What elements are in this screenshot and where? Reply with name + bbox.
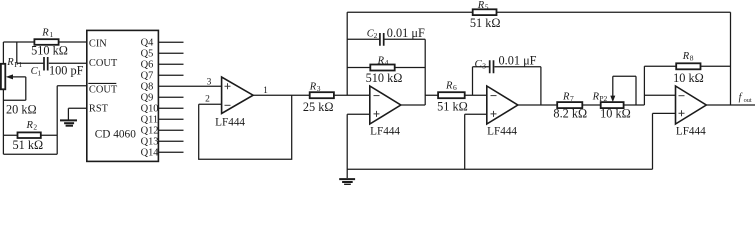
svg-text:RST: RST <box>89 103 109 114</box>
svg-text:LF444: LF444 <box>676 125 706 137</box>
svg-text:P1: P1 <box>14 60 22 69</box>
svg-text:Q7: Q7 <box>141 70 154 81</box>
svg-text:R: R <box>26 120 34 131</box>
svg-text:Q13: Q13 <box>141 136 159 147</box>
svg-text:8: 8 <box>690 53 694 62</box>
svg-text:0.01 μF: 0.01 μF <box>499 54 537 68</box>
svg-text:51 kΩ: 51 kΩ <box>437 100 468 114</box>
svg-text:510 kΩ: 510 kΩ <box>31 44 68 58</box>
svg-text:Q10: Q10 <box>141 103 159 114</box>
svg-text:2: 2 <box>33 123 37 132</box>
svg-text:2: 2 <box>205 95 210 105</box>
svg-text:Q14: Q14 <box>141 147 160 158</box>
svg-text:R: R <box>682 51 690 62</box>
svg-text:7: 7 <box>570 94 574 103</box>
svg-text:R: R <box>592 92 600 103</box>
svg-text:4: 4 <box>385 58 389 67</box>
svg-text:Q9: Q9 <box>141 92 154 103</box>
svg-text:Q6: Q6 <box>141 59 154 70</box>
svg-text:5: 5 <box>485 3 489 12</box>
svg-text:10 kΩ: 10 kΩ <box>673 71 704 85</box>
svg-text:1: 1 <box>263 86 268 96</box>
svg-text:COUT: COUT <box>89 84 118 95</box>
svg-text:LF444: LF444 <box>215 116 245 128</box>
svg-text:R: R <box>477 0 485 11</box>
svg-text:R: R <box>6 57 14 68</box>
svg-text:Q12: Q12 <box>141 125 159 136</box>
svg-text:3: 3 <box>207 77 212 87</box>
svg-text:8.2 kΩ: 8.2 kΩ <box>553 106 587 120</box>
svg-text:R: R <box>377 55 385 66</box>
svg-text:COUT: COUT <box>89 58 118 69</box>
svg-text:f: f <box>739 92 743 103</box>
svg-text:1: 1 <box>50 30 54 39</box>
svg-text:R: R <box>562 92 570 103</box>
svg-text:CD 4060: CD 4060 <box>95 128 136 140</box>
svg-text:CIN: CIN <box>89 38 107 49</box>
svg-text:Q11: Q11 <box>141 114 159 125</box>
svg-text:25 kΩ: 25 kΩ <box>303 100 334 114</box>
svg-text:LF444: LF444 <box>370 125 400 137</box>
svg-text:LF444: LF444 <box>487 126 517 138</box>
svg-text:10 kΩ: 10 kΩ <box>600 106 631 120</box>
svg-text:51 kΩ: 51 kΩ <box>470 16 501 30</box>
svg-text:P2: P2 <box>599 94 607 103</box>
svg-text:20 kΩ: 20 kΩ <box>6 103 37 117</box>
svg-text:R: R <box>445 81 453 92</box>
svg-text:51 kΩ: 51 kΩ <box>12 138 43 152</box>
svg-text:Q8: Q8 <box>141 81 154 92</box>
svg-text:0.01 μF: 0.01 μF <box>387 26 425 40</box>
svg-text:6: 6 <box>453 83 457 92</box>
svg-text:R: R <box>309 81 317 92</box>
svg-text:510 kΩ: 510 kΩ <box>366 71 403 85</box>
svg-text:1: 1 <box>37 69 41 78</box>
svg-text:Q4: Q4 <box>141 37 155 48</box>
svg-text:2: 2 <box>374 31 378 40</box>
svg-text:3: 3 <box>317 84 321 93</box>
svg-text:100 pF: 100 pF <box>49 63 84 77</box>
svg-text:out: out <box>744 97 752 104</box>
svg-text:Q5: Q5 <box>141 48 154 59</box>
svg-text:R: R <box>41 27 49 38</box>
svg-text:3: 3 <box>482 61 486 70</box>
